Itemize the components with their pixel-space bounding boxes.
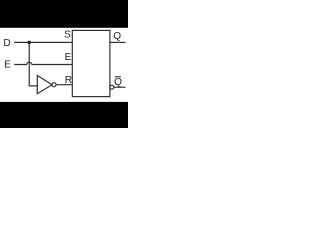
svg-text:Q: Q — [114, 77, 122, 88]
svg-text:S: S — [64, 29, 71, 40]
output bubble for Qbar — [110, 85, 114, 89]
svg-text:Q: Q — [113, 31, 121, 42]
svg-text:E: E — [4, 60, 11, 71]
svg-text:E: E — [65, 52, 72, 63]
svg-text:R: R — [65, 75, 72, 86]
wire Q output — [110, 41, 126, 43]
wire E to E input with hop over vertical wire — [14, 62, 72, 64]
svg-text:D: D — [3, 38, 10, 49]
wire Qbar output — [114, 86, 126, 88]
SR latch box — [72, 30, 110, 96]
wire junction down to inverter input — [29, 42, 37, 86]
wire inverter to R input — [56, 84, 72, 86]
wire D to S input — [14, 41, 72, 43]
junction dot on D wire — [27, 41, 31, 45]
inverter output bubble — [52, 83, 56, 87]
overline of Qbar — [115, 76, 121, 78]
inverter (NOT gate) triangle — [37, 76, 52, 94]
